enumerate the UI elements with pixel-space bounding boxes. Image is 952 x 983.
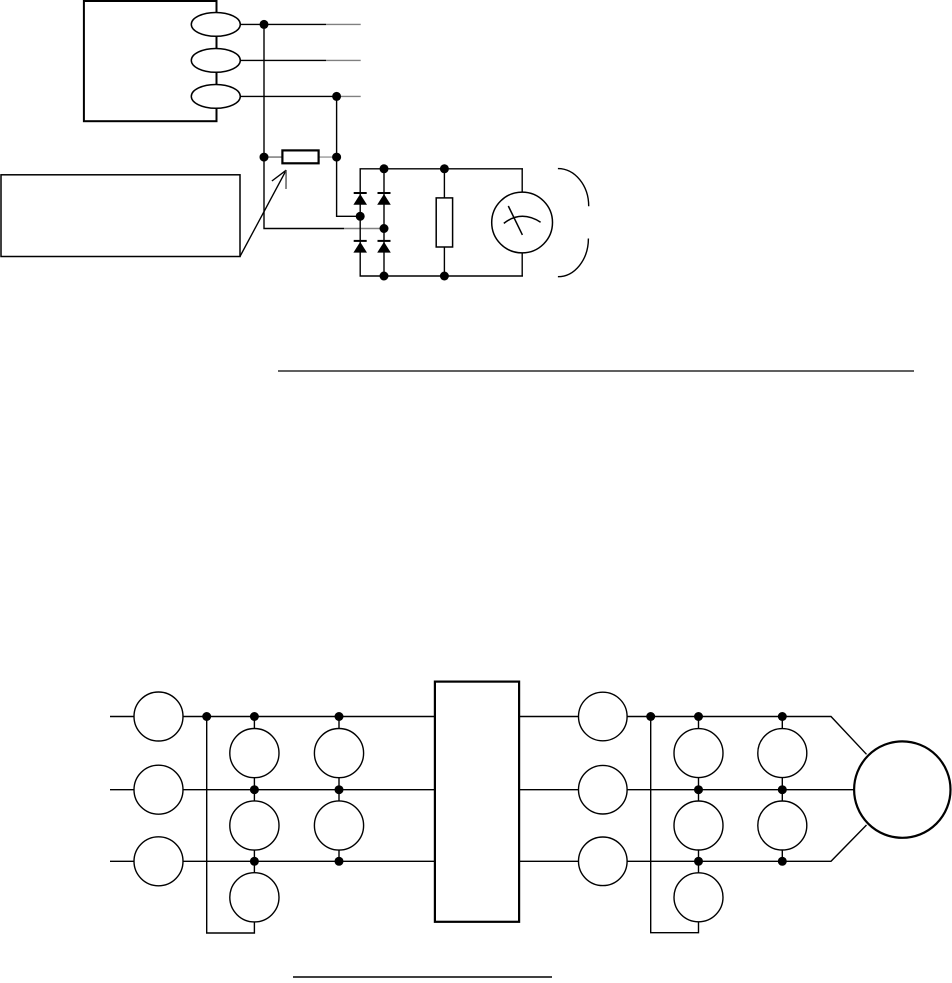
wire meter top stub bbox=[521, 169, 523, 192]
node L3 chain2 bbox=[335, 857, 344, 866]
callout arrow shaft bbox=[240, 170, 286, 257]
wire right leg down to bridge AC input bbox=[337, 157, 361, 216]
divider rule upper bbox=[278, 370, 914, 372]
node L3 chain4 bbox=[778, 857, 787, 866]
junction box U1 bbox=[435, 682, 519, 922]
generator winding coil 3 bbox=[191, 85, 240, 109]
diode D1 bbox=[353, 193, 367, 205]
wire vertical from phase C tap bbox=[336, 96, 338, 157]
lamp V2 bbox=[230, 801, 279, 850]
lamp V9 bbox=[758, 729, 807, 778]
meter M1 scale arc bbox=[504, 216, 541, 223]
wire phase C tail bbox=[337, 95, 361, 97]
meter M1 needle bbox=[508, 206, 522, 235]
node load bottom bbox=[440, 272, 449, 281]
callout label box bbox=[1, 175, 240, 257]
node L3 chain3 bbox=[694, 857, 703, 866]
diode D3 bbox=[353, 241, 367, 253]
lamp V1 bbox=[230, 729, 279, 778]
wire phase line L1 bbox=[110, 717, 867, 755]
node phase A tap bbox=[260, 20, 269, 29]
bridge bottom rail bbox=[360, 275, 524, 277]
node bridge right leg top bbox=[380, 164, 389, 173]
wire right lamp chain 2 vertical bbox=[781, 717, 783, 862]
callout arrow barb left bbox=[272, 170, 286, 181]
wire phase B bbox=[240, 59, 326, 61]
wire meter bottom stub bbox=[521, 253, 523, 276]
node load top bbox=[440, 164, 449, 173]
node L2 chain2 bbox=[335, 785, 344, 794]
node L2 chain4 bbox=[778, 785, 787, 794]
wire rheostat left stub bbox=[264, 156, 282, 158]
node L1 chain3 bbox=[694, 712, 703, 721]
series meter A6 bbox=[579, 837, 628, 886]
generator winding coil 2 bbox=[191, 49, 240, 73]
diode D4 bbox=[377, 241, 391, 253]
bridge top rail bbox=[360, 168, 524, 170]
bridge right leg bbox=[383, 169, 385, 276]
wire phase C bbox=[240, 95, 337, 97]
node L2 chain1 bbox=[250, 785, 259, 794]
node L3 chain1 bbox=[250, 857, 259, 866]
lamp V4 bbox=[314, 729, 363, 778]
series meter A1 bbox=[134, 692, 183, 741]
lamp V10 bbox=[758, 801, 807, 850]
wire phase B tail bbox=[326, 59, 361, 61]
wire to bridge right leg gray part bbox=[344, 228, 384, 230]
series meter A5 bbox=[579, 765, 628, 814]
node rheostat right bbox=[332, 153, 341, 162]
lamp V7 bbox=[674, 801, 723, 850]
series meter A3 bbox=[134, 837, 183, 886]
series meter A2 bbox=[134, 765, 183, 814]
wire phase A tail bbox=[326, 23, 361, 25]
wire phase line L2 bbox=[110, 789, 856, 791]
lamp V5 bbox=[314, 801, 363, 850]
node L1 left tap bbox=[202, 712, 211, 721]
wire left leg down to bridge DC- input bbox=[264, 157, 344, 228]
bridge left leg bbox=[359, 169, 361, 276]
lamp V8 bbox=[674, 873, 723, 922]
wire load resistor top stub bbox=[443, 169, 445, 198]
wire phase line L3 bbox=[110, 825, 867, 861]
meter M1 body bbox=[492, 192, 553, 253]
lamp V6 bbox=[674, 729, 723, 778]
node L1 right tap bbox=[646, 712, 655, 721]
wire left lamp chain vertical bbox=[253, 717, 255, 922]
node L1 chain1 bbox=[250, 712, 259, 721]
generator winding coil 1 bbox=[191, 13, 240, 37]
bracket arc lower bbox=[558, 239, 589, 277]
wire right return loop bbox=[651, 717, 699, 933]
node rheostat left bbox=[260, 153, 269, 162]
series meter A4 bbox=[579, 692, 628, 741]
motor M2 bbox=[854, 741, 950, 837]
node L2 chain3 bbox=[694, 785, 703, 794]
load resistor R2 bbox=[436, 198, 452, 247]
wire vertical from phase A tap bbox=[263, 24, 265, 157]
wire phase A bbox=[240, 23, 326, 25]
wire left return loop bbox=[207, 717, 255, 934]
node bridge right leg input bbox=[380, 224, 389, 233]
wire right lamp chain vertical bbox=[698, 717, 700, 922]
node bridge left leg input bbox=[356, 212, 365, 221]
wire rheostat right stub bbox=[319, 156, 337, 158]
lamp V3 bbox=[230, 873, 279, 922]
callout arrow barb right bbox=[285, 170, 287, 189]
divider rule lower bbox=[293, 976, 552, 978]
bracket arc upper bbox=[558, 169, 589, 207]
diode D2 bbox=[377, 193, 391, 205]
node L1 chain4 bbox=[778, 712, 787, 721]
generator frame box G1 bbox=[84, 1, 217, 121]
wire left lamp chain 2 vertical bbox=[338, 717, 340, 862]
node L1 chain2 bbox=[335, 712, 344, 721]
node bridge right leg bottom bbox=[380, 272, 389, 281]
rheostat R1 bbox=[282, 150, 318, 163]
wire load resistor bottom stub bbox=[443, 247, 445, 276]
node phase C tap bbox=[332, 92, 341, 101]
